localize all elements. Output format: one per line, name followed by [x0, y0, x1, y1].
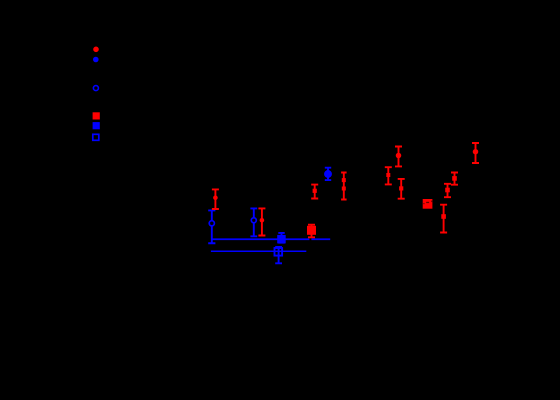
error bar P8 (red)	[398, 179, 405, 199]
theory line L1 (blue horizontal)	[212, 238, 331, 240]
data point P1: red filled circle	[213, 195, 218, 200]
error bar P2 (red)	[258, 208, 265, 235]
error bar E (blue)	[325, 168, 331, 180]
error bar P13 (red)	[472, 143, 479, 163]
error bar B (blue)	[250, 208, 257, 236]
data point P9: red filled square (large)	[423, 199, 433, 209]
error bar P7 (red)	[395, 147, 402, 167]
error bar P4 (red)	[311, 185, 318, 199]
data point P5b: red filled square	[342, 187, 346, 191]
data point P12: red filled square	[452, 176, 457, 181]
legend marker: red filled circle	[93, 47, 99, 53]
error bar P10 (red)	[440, 205, 447, 233]
data point D: blue open square	[275, 248, 283, 256]
legend marker: blue filled circle	[93, 57, 99, 63]
data point E: blue filled circle	[324, 170, 332, 178]
data point P6: red filled square	[386, 173, 390, 177]
error bar P3 (red)	[308, 225, 315, 238]
error bar P1 (red)	[212, 189, 219, 209]
data point P11: red filled square	[445, 188, 450, 193]
data point A: blue open circle	[209, 221, 214, 226]
data point P8: red filled square	[399, 186, 403, 190]
error bar P6 (red)	[385, 167, 392, 184]
error bar A (blue)	[208, 210, 215, 243]
error bar P11 (red)	[444, 184, 451, 197]
data point P5a: red filled square	[342, 178, 346, 182]
data point P2: red filled circle	[260, 218, 265, 223]
legend marker: blue filled square	[93, 122, 100, 129]
legend marker: blue open square	[93, 134, 99, 140]
data point P10: red filled square	[441, 214, 446, 219]
data point P4: red filled square	[313, 189, 317, 193]
error bar P5 (red, shared)	[341, 173, 347, 200]
data point P3: red filled square (large)	[307, 226, 316, 235]
legend marker: blue open circle	[93, 86, 98, 91]
error bar P12 (red)	[451, 173, 458, 185]
data point C: blue filled square	[277, 235, 286, 244]
dark smudge over P9 (black text overlap)	[423, 201, 432, 205]
data point P7: red filled circle	[396, 153, 402, 159]
data point B: blue open circle	[251, 218, 256, 223]
error bar C (blue)	[278, 233, 284, 243]
theory line L2 (blue horizontal)	[211, 250, 306, 252]
legend marker: red filled square	[93, 112, 100, 119]
error bar D (blue)	[275, 247, 282, 263]
data point P13: red filled circle	[473, 149, 479, 155]
